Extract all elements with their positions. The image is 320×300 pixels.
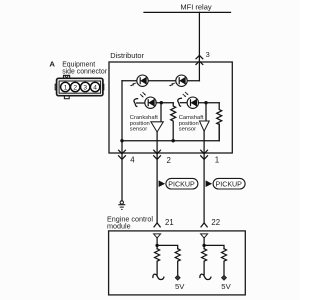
connector chevrons at pin 3 (196, 55, 203, 64)
photodiode PD1 crankshaft (137, 92, 157, 108)
LED D2 (right) (169, 75, 188, 86)
ground symbol (118, 201, 125, 210)
ECM wire-end chevron pin 21 (154, 223, 160, 227)
wire triangle to node 22 (203, 238, 205, 249)
svg-text:Distributor: Distributor (110, 51, 144, 60)
node dot crank (160, 101, 163, 104)
svg-text:MFI relay: MFI relay (180, 2, 212, 11)
photodiode PD2 camshaft (180, 92, 198, 109)
Camshaft position sensor label (179, 115, 204, 133)
pigtail curl at PD2 (178, 98, 182, 106)
A label (49, 59, 55, 68)
rail junction dot at pin4 (120, 139, 123, 142)
svg-text:1: 1 (64, 85, 68, 92)
distributor box (109, 62, 232, 153)
pin number 2 label (167, 156, 171, 165)
svg-text:1: 1 (215, 156, 219, 165)
connector chevrons pin 2 (154, 150, 161, 159)
amp A2 output wire to pin 1 (203, 131, 205, 223)
connector cavity 4 (90, 82, 99, 91)
amp A1 output wire to pin 2 (156, 132, 158, 223)
pin number 22 label (211, 218, 220, 227)
connector cavity 3 (81, 82, 90, 91)
LED D1 (left) (130, 75, 149, 86)
svg-text:side connector: side connector (62, 68, 108, 75)
5V label pin22 (221, 282, 231, 291)
wire PD1 to node (156, 102, 173, 104)
5V terminal pin21 (175, 275, 180, 280)
svg-text:22: 22 (211, 218, 220, 227)
wire node down to amp A2 (205, 103, 207, 121)
resistor R1 (171, 103, 176, 141)
resistor R6 (pull-up to 5V, pin22) (222, 249, 227, 276)
svg-text:21: 21 (165, 218, 174, 227)
branch wire to pullup 21 (157, 245, 178, 248)
Distributor label (110, 51, 144, 60)
svg-text:module: module (107, 221, 131, 230)
top LED row wire (122, 80, 199, 82)
resistor R4 (pull-up to 5V, pin21) (175, 249, 180, 276)
resistor R3 (series, pin21) (155, 249, 160, 275)
Crankshaft position sensor label (130, 115, 158, 133)
PICKUP connector 1 (pin 2) (159, 178, 198, 189)
pin 4 wire down to ground (121, 141, 123, 201)
svg-text:sensor: sensor (179, 127, 196, 133)
svg-text:A: A (49, 59, 55, 68)
node dot 22 (202, 244, 205, 247)
wire PD2 to node (198, 102, 219, 104)
pin number 21 label (165, 218, 174, 227)
PICKUP connector 2 (pin 1) (206, 178, 246, 189)
pigtail curl R5 (200, 274, 211, 279)
MFI relay label (180, 2, 212, 11)
svg-text:5V: 5V (175, 282, 185, 291)
rail junction dot at R1 (172, 139, 175, 142)
pin number 4 label (130, 156, 135, 165)
svg-text:PICKUP: PICKUP (168, 180, 195, 188)
Equipment side connector label (62, 61, 108, 75)
5V label pin21 (175, 282, 185, 291)
ECM input triangle pin 21 (154, 234, 161, 238)
Engine control module label (107, 215, 153, 231)
pigtail curl R3 (153, 274, 164, 279)
ECM wire-end chevron pin 22 (201, 223, 207, 227)
svg-text:PICKUP: PICKUP (216, 180, 243, 188)
ground rail inside distributor (122, 124, 219, 141)
connector cavity 1 (61, 82, 70, 91)
wire triangle to node 21 (156, 238, 158, 249)
node dot cam (204, 101, 207, 104)
amp triangle A2 (200, 121, 210, 131)
wire node down to amp A1 (160, 103, 162, 122)
pin number 1 label (215, 156, 219, 165)
pin number 3 label (206, 50, 210, 59)
node dot 21 (155, 244, 158, 247)
svg-text:2: 2 (167, 156, 171, 165)
branch wire to pullup 22 (204, 245, 224, 248)
MFI relay bus wire (144, 11, 231, 13)
connector chevrons pin 1 (201, 150, 208, 159)
connector chevrons pin 4 (119, 150, 126, 159)
svg-text:4: 4 (130, 156, 135, 165)
5V terminal pin22 (222, 275, 227, 280)
svg-text:sensor: sensor (130, 127, 147, 133)
ECM input triangle pin 22 (201, 234, 208, 238)
connector cavity 2 (71, 82, 80, 91)
resistor R2 (217, 103, 222, 141)
svg-text:3: 3 (206, 50, 210, 59)
svg-text:3: 3 (83, 85, 87, 92)
svg-text:5V: 5V (221, 282, 231, 291)
amp triangle A1 (151, 122, 163, 132)
pigtail curl at PD1 (134, 99, 138, 107)
svg-text:2: 2 (73, 85, 77, 92)
equipment side connector body (55, 75, 104, 98)
wire from MFI relay down to pin 3 (198, 12, 200, 80)
engine control module box (109, 231, 246, 295)
svg-text:4: 4 (93, 85, 97, 92)
left vertical wire (pin 4 net) (121, 81, 123, 141)
svg-text:Equipment: Equipment (62, 61, 95, 68)
resistor R5 (series, pin22) (202, 249, 207, 275)
